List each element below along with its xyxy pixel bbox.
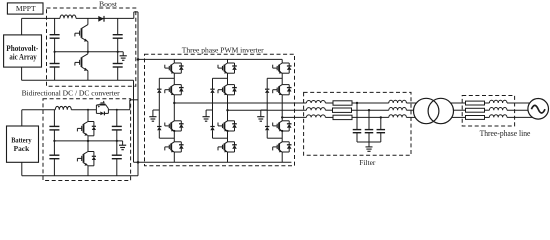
svg-text:Boost: Boost <box>99 0 117 9</box>
svg-text:MPPT: MPPT <box>16 4 36 13</box>
svg-text:Filter: Filter <box>359 158 376 167</box>
svg-text:Three phase PWM inverter: Three phase PWM inverter <box>182 46 264 55</box>
svg-text:aic Array: aic Array <box>9 53 36 62</box>
svg-text:Three-phase line: Three-phase line <box>480 129 531 138</box>
svg-text:Bidirectional DC / DC converte: Bidirectional DC / DC converter <box>22 89 120 98</box>
svg-text:Pack: Pack <box>14 144 31 153</box>
